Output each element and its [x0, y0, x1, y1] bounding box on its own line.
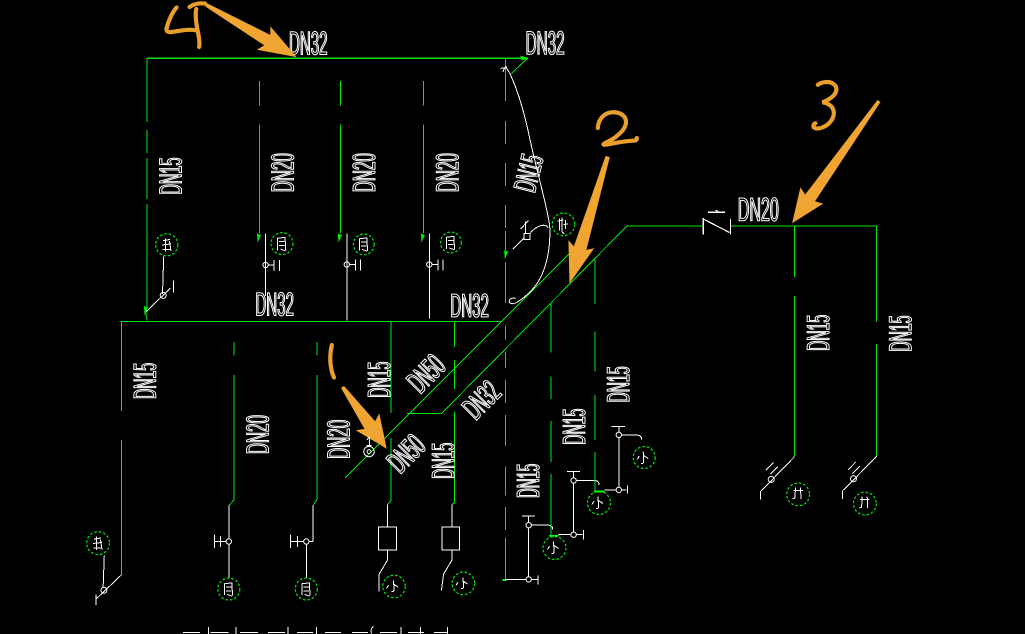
- label DN32 header left: [290, 31, 327, 54]
- label DN32 header right: [527, 31, 564, 54]
- riser B dashed (middle, DN15): [550, 304, 552, 536]
- wire: green nub L1: [503, 579, 507, 581]
- riser B2 (DN20): [229, 342, 234, 506]
- valve V4 (riser4): [427, 259, 443, 270]
- riser C dashed (middle, DN15): [594, 258, 596, 492]
- connector white riser1 circle to tap: [163, 257, 164, 294]
- fixture circle F4 (riser4): [441, 232, 462, 253]
- tap L2: [559, 530, 584, 540]
- riser 3 (top, DN20): [339, 81, 341, 233]
- wire: green nub L2: [549, 535, 559, 537]
- fixture circle F10 (L1): [543, 537, 566, 560]
- wire: tail of diagonal B: [407, 413, 442, 415]
- wire: second header pipe (DN32): [121, 320, 501, 322]
- drop D2 (right, DN15): [876, 226, 878, 456]
- node: takeoff point on diagonal A: [364, 446, 374, 456]
- fixture circle F12 (L3): [633, 447, 655, 469]
- riser B1 (bottom-left, DN15): [121, 321, 123, 574]
- standpipe L2: [567, 471, 599, 532]
- water meter M1 (riser B4): [379, 504, 397, 591]
- riser 1 (top-left, DN15): [146, 58, 147, 320]
- fixture circle F14 (drop D1): [787, 483, 810, 506]
- tap on hose (faucet with square): [513, 221, 549, 250]
- riser B3 (DN20): [313, 342, 317, 506]
- annotation digit 2: [598, 112, 637, 145]
- hose curve (white flexible connector): [500, 67, 549, 304]
- pipe: diagonal main A (DN50): [345, 253, 570, 478]
- drop pipe riser4 (white): [428, 233, 430, 318]
- tap T7 (drop D2): [843, 456, 877, 499]
- fixture circle F6 (riser B2): [218, 578, 240, 600]
- flow arrow riser 1 bottom: [144, 306, 148, 316]
- tap T5 (riser B1 bottom faucet): [96, 575, 122, 606]
- pipe: diagonal main B (DN32): [442, 226, 628, 414]
- wire: header-end diagonal jog: [510, 58, 527, 74]
- label DN50 lower (diagonal A): [386, 434, 425, 473]
- annotation arrow 1 shaft+head: [341, 386, 387, 449]
- standpipe L1: [522, 516, 553, 577]
- label 1 (white, takeoff): [367, 437, 372, 446]
- label DN20 riser B2: [246, 416, 269, 453]
- annotation digit 1: [330, 345, 334, 378]
- tap T1 (diagonal faucet riser1): [146, 281, 173, 312]
- flow arrow riser 2: [257, 234, 261, 243]
- label DN32 (diagonal B): [461, 381, 502, 421]
- water meter M2 (riser B5): [441, 504, 459, 590]
- drop pipe riser B3 (white): [312, 506, 314, 542]
- valve V5 (riser B2): [215, 535, 232, 578]
- drop pipe riser B2 (white): [228, 506, 230, 539]
- standpipe L3: [611, 426, 641, 487]
- label DN32 second header right: [452, 294, 489, 317]
- flow arrow at header right end: [520, 56, 529, 61]
- label DN15 drop D2: [889, 316, 911, 350]
- pipe break symbol (N): [703, 210, 730, 234]
- wire: top header pipe: [147, 57, 525, 59]
- annotation arrow 4: [167, 8, 177, 29]
- wire: green nub L3: [594, 490, 604, 492]
- label DN15 riser B5: [432, 443, 454, 477]
- label DN15 riser A: [517, 464, 539, 496]
- label DN20 riser3: [353, 154, 376, 191]
- valve V2 (riser2): [263, 260, 279, 271]
- label DN50 upper (diagonal A): [406, 354, 445, 393]
- label DN15 riser B: [563, 409, 585, 443]
- fixture circle F1 (riser1): [156, 234, 178, 256]
- fixture circle F7 (riser B3): [295, 578, 317, 600]
- label DN20 riser2: [271, 154, 294, 191]
- wire: branch header right (DN20): [628, 225, 704, 227]
- riser A dashed (middle, DN15): [505, 76, 507, 580]
- valve V6 (riser B3): [291, 535, 314, 578]
- flow arrow riser A: [504, 250, 508, 259]
- annotation arrow 4 shaft+head: [205, 3, 296, 57]
- fixture circle F13 (hose): [552, 213, 575, 236]
- annotation digit 3: [813, 82, 836, 129]
- riser 2 (top, DN20): [258, 81, 260, 233]
- riser 4 (top, DN20): [422, 81, 424, 233]
- annotation arrow 3 shaft+head: [792, 100, 880, 223]
- label DN20 riser B3: [327, 420, 350, 457]
- fixture circle F15 (drop D2): [854, 492, 877, 515]
- label DN15 riser B1: [134, 363, 156, 397]
- fixture circle F11 (L2): [588, 491, 611, 514]
- flow arrow riser 4: [421, 234, 425, 243]
- drop pipe riser2 (white): [265, 233, 267, 296]
- label DN20 branch: [739, 198, 778, 221]
- riser B4 (DN50 with meter): [388, 321, 391, 504]
- fixture circle F2 (riser2): [271, 233, 293, 255]
- flow arrow riser 3: [338, 234, 342, 243]
- label DN15 riser1: [160, 158, 182, 193]
- annotation arrow 2 shaft+head: [568, 156, 609, 284]
- floor line marks (cut-off bottom): [183, 627, 448, 634]
- label DN15 riser C: [607, 367, 629, 401]
- valve V3 (riser3): [344, 259, 360, 270]
- fixture circle F9 (riser B5): [452, 572, 475, 595]
- tap T6 (drop D1): [761, 457, 795, 500]
- tap L3: [604, 486, 627, 494]
- label DN32 second header left: [257, 292, 294, 315]
- label DN15 drop D1: [807, 315, 829, 349]
- label DN15 on hose: [514, 154, 543, 193]
- label DN20 riser4: [436, 154, 459, 191]
- connector riser B1 circle to tap: [103, 556, 104, 589]
- fixture circle F5 (riser B1): [87, 532, 110, 555]
- tap L1: [506, 575, 539, 584]
- label DN15 riser B4: [368, 362, 390, 396]
- fixture circle F3 (riser3): [353, 234, 374, 255]
- drop D1 (right, DN15): [794, 226, 796, 457]
- wire: stub from header to dashed riser A: [505, 58, 507, 75]
- drop pipe riser3 (white): [346, 233, 348, 320]
- fixture circle F8 (riser B4): [383, 575, 406, 598]
- riser B5 (DN15 with meter): [452, 321, 455, 504]
